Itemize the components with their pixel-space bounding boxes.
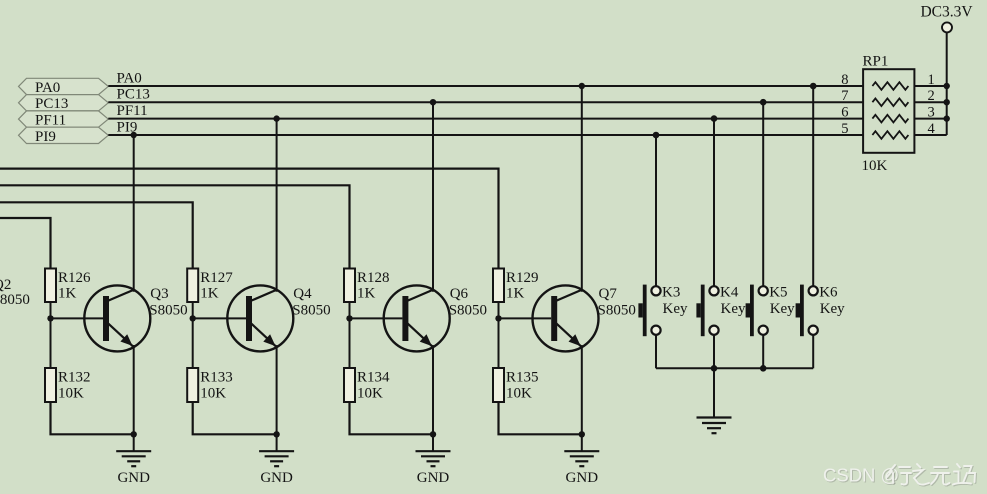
svg-text:PC13: PC13 (35, 96, 68, 112)
svg-text:5: 5 (841, 121, 848, 137)
wire K4 column (713, 119, 715, 286)
wire R134 to ground rail (350, 402, 434, 434)
wire R129 to base node (498, 302, 500, 368)
node base junction of Q3 (47, 315, 53, 321)
svg-text:PA0: PA0 (117, 70, 142, 86)
wire net PF11 (horizontal bus) (108, 118, 863, 120)
svg-text:4: 4 (928, 121, 936, 137)
wire feed to R128 (0, 185, 350, 268)
wire feed to R127 (0, 202, 193, 268)
svg-text:6: 6 (841, 104, 848, 120)
svg-text:Q7: Q7 (599, 286, 618, 302)
resistor R127 1K (187, 269, 233, 303)
wire net PC13 (horizontal bus) (108, 101, 863, 103)
resistor R132 10K (45, 368, 91, 402)
wire K3 column (655, 135, 657, 286)
svg-text:Key: Key (721, 301, 746, 317)
svg-text:8: 8 (841, 72, 848, 88)
push button K5 Key (746, 285, 796, 337)
svg-text:R134: R134 (357, 370, 390, 386)
transistor Q2 (clipped at left edge) (0, 277, 30, 308)
node base junction of Q4 (190, 315, 196, 321)
svg-text:K4: K4 (720, 285, 739, 301)
svg-text:R135: R135 (506, 370, 539, 386)
svg-text:3: 3 (928, 104, 935, 120)
transistor Q6 S8050 (384, 285, 487, 351)
wire R126 to base node (50, 302, 52, 368)
node junction PA0 / K6 (810, 83, 817, 90)
svg-text:GND: GND (117, 470, 150, 486)
svg-text:10K: 10K (357, 386, 383, 402)
resistor R126 1K (45, 269, 91, 303)
svg-text:R129: R129 (506, 270, 539, 286)
svg-text:Key: Key (663, 301, 688, 317)
ground GND under Q7 (564, 434, 599, 486)
node junction PF11 / K4 (711, 115, 718, 122)
watermark CSDN @行之无边 (823, 464, 976, 487)
svg-text:S8050: S8050 (449, 303, 487, 319)
wire key ground rail (656, 367, 813, 369)
wire base of Q7 (499, 317, 552, 319)
svg-text:S8050: S8050 (598, 303, 636, 319)
svg-text:R132: R132 (58, 370, 91, 386)
svg-text:R128: R128 (357, 270, 390, 286)
svg-text:PF11: PF11 (117, 103, 148, 119)
node junction PA0 / Q7 collector (579, 83, 585, 89)
node junction RP1 right (944, 83, 950, 89)
svg-text:PF11: PF11 (35, 112, 66, 128)
svg-text:S8050: S8050 (292, 303, 330, 319)
node junction PC13 / K5 (760, 99, 767, 106)
wire net PI9 (horizontal bus) (108, 134, 863, 136)
svg-text:Q6: Q6 (450, 286, 469, 302)
resistor R129 1K (493, 269, 539, 303)
svg-text:GND: GND (417, 470, 450, 486)
svg-text:S8050: S8050 (149, 303, 187, 319)
node junction PI9 / K3 (653, 132, 660, 139)
wire emitter column of Q4 (276, 345, 278, 434)
svg-text:RP1: RP1 (863, 54, 889, 70)
svg-text:10K: 10K (58, 386, 84, 402)
node junction K5/ground rail (760, 365, 767, 372)
port flag PF11 (19, 111, 109, 129)
wire DC3.3V vertical (946, 33, 948, 135)
ground GND under Q3 (116, 434, 151, 486)
node junction RP1 right (944, 99, 950, 105)
wire R133 to ground rail (193, 402, 277, 434)
port flag PI9 (19, 127, 109, 145)
port flag PA0 (19, 78, 109, 96)
resistor network RP1 10K (862, 54, 915, 175)
node junction emitter/R135 (579, 431, 585, 437)
transistor Q4 S8050 (227, 285, 330, 351)
wire K5 to key ground rail (762, 335, 764, 369)
svg-text:Q2: Q2 (0, 277, 11, 293)
svg-text:PA0: PA0 (35, 80, 60, 96)
wire K6 column (812, 86, 814, 286)
svg-text:1K: 1K (357, 286, 376, 302)
node junction PI9 / Q3 collector (131, 132, 137, 138)
svg-text:1K: 1K (200, 286, 219, 302)
ground (earth) for keys (697, 368, 732, 433)
svg-text:K6: K6 (819, 285, 838, 301)
transistor Q3 S8050 (84, 285, 187, 351)
svg-text:GND: GND (260, 470, 293, 486)
svg-text:1K: 1K (506, 286, 525, 302)
resistor R135 10K (493, 368, 539, 402)
ground GND under Q6 (416, 434, 451, 486)
wire base of Q3 (51, 317, 104, 319)
wire RP1 pin 3 (914, 118, 946, 120)
svg-text:R127: R127 (200, 270, 233, 286)
node junction K4/ground stem (711, 365, 718, 372)
node junction PC13 / Q6 collector (430, 99, 436, 105)
svg-text:R126: R126 (58, 270, 91, 286)
wire RP1 pin 2 (914, 101, 946, 103)
svg-text:Q4: Q4 (293, 286, 312, 302)
wire collector column of Q4 (276, 119, 278, 292)
wire K6 to key ground rail (812, 335, 814, 369)
wire emitter column of Q7 (581, 345, 583, 434)
wire collector column of Q3 (133, 135, 135, 292)
svg-text:Key: Key (820, 301, 845, 317)
wire collector column of Q6 (432, 102, 434, 292)
push button K6 Key (796, 285, 846, 337)
port flag PC13 (19, 95, 109, 113)
push button K3 Key (638, 285, 688, 337)
svg-text:GND: GND (566, 470, 599, 486)
svg-text:1K: 1K (58, 286, 77, 302)
wire collector column of Q7 (581, 86, 583, 292)
svg-text:Key: Key (770, 301, 795, 317)
wire K4 to key ground rail (713, 335, 715, 369)
wire RP1 pin 4 (914, 134, 946, 136)
node junction emitter/R133 (273, 431, 279, 437)
resistor R128 1K (344, 269, 390, 303)
svg-text:PC13: PC13 (117, 87, 150, 103)
svg-text:10K: 10K (200, 386, 226, 402)
svg-text:1: 1 (928, 72, 935, 88)
svg-text:Q3: Q3 (150, 286, 168, 302)
svg-text:K5: K5 (769, 285, 787, 301)
wire R127 to base node (192, 302, 194, 368)
wire K5 column (762, 102, 764, 286)
svg-text:PI9: PI9 (35, 129, 56, 145)
wire base of Q4 (193, 317, 246, 319)
svg-text:10K: 10K (862, 158, 888, 174)
wire feed to R129 (0, 169, 499, 269)
ground GND under Q4 (259, 434, 294, 486)
svg-text:R133: R133 (200, 370, 233, 386)
resistor R133 10K (187, 368, 233, 402)
wire RP1 pin 1 (914, 85, 946, 87)
transistor Q7 S8050 (533, 285, 636, 351)
power port DC3.3V (920, 4, 973, 33)
svg-text:K3: K3 (662, 285, 680, 301)
node junction PF11 / Q4 collector (273, 115, 279, 121)
node junction emitter/R134 (430, 431, 436, 437)
node junction RP1 right (944, 115, 950, 121)
svg-text:7: 7 (841, 88, 848, 104)
svg-text:DC3.3V: DC3.3V (920, 4, 973, 21)
svg-text:S8050: S8050 (0, 292, 30, 308)
node base junction of Q6 (346, 315, 352, 321)
svg-text:2: 2 (928, 88, 935, 104)
wire R132 to ground rail (51, 402, 134, 434)
wire emitter column of Q3 (133, 345, 135, 434)
wire feed to R126 (0, 218, 51, 269)
wire net PA0 (horizontal bus) (108, 85, 863, 87)
wire base of Q6 (350, 317, 403, 319)
wire R128 to base node (349, 302, 351, 368)
resistor R134 10K (344, 368, 390, 402)
push button K4 Key (696, 285, 746, 337)
svg-text:10K: 10K (506, 386, 532, 402)
node junction emitter/R132 (131, 431, 137, 437)
node base junction of Q7 (495, 315, 501, 321)
wire R135 to ground rail (499, 402, 582, 434)
wire emitter column of Q6 (432, 345, 434, 434)
wire K3 to key ground rail (655, 335, 657, 369)
